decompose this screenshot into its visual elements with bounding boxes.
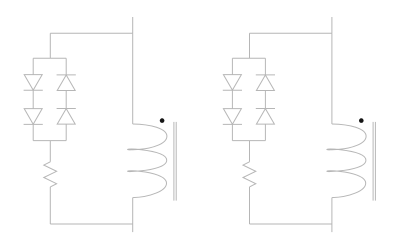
wire: right branch lower lead [65,124,67,141]
wire: diode network top rail [232,57,265,59]
diode D5 (cathode down) [223,75,242,91]
wire: bottom horizontal [50,223,132,225]
wire: coil bottom to lower terminal stub [132,198,134,233]
polarity dot (phasing dot) [359,118,364,123]
transformer core lines [373,122,375,201]
wire: right branch middle lead [264,91,266,109]
transformer core lines [174,122,176,201]
wire: right branch lower lead [264,124,266,141]
wire: right branch upper lead [264,58,266,75]
diode D4 (cathode up) [57,109,76,125]
wire: coil bottom to lower terminal stub [331,198,333,233]
wire: left vertical drop [49,33,51,58]
wire: left vertical drop [249,33,251,58]
wire: resistor to bottom rail [249,187,251,224]
wire: bottom horizontal [250,223,332,225]
wire: diode network top rail [33,57,66,59]
wire: right branch upper lead [65,58,67,75]
diode D3 (cathode up) [57,75,76,91]
wire: left branch upper lead [32,58,34,74]
wire: right branch middle lead [65,91,67,109]
diode D8 (cathode up) [256,109,275,125]
circuit 1 (left) [24,17,177,232]
wire: left branch middle lead [231,90,233,108]
diode D7 (cathode up) [256,75,275,91]
wire: center tap down to resistor [49,141,51,162]
wire: bus from top junction down to coil [132,33,134,124]
diode D2 (cathode down) [24,109,43,125]
resistor R2 [243,162,256,187]
wire: top horizontal [250,32,332,34]
inductor L2 (transformer winding) [327,124,366,198]
wire: left branch middle lead [32,90,34,108]
wire: left branch lower lead [32,124,34,140]
wire: bus from top junction down to coil [331,33,333,124]
polarity dot (phasing dot) [160,118,165,123]
resistor R1 [44,162,57,187]
wire: left branch upper lead [231,58,233,74]
wire: diode network bottom rail [33,140,66,142]
circuit 2 (right) [223,17,376,232]
wire: left branch lower lead [231,124,233,140]
wire: resistor to bottom rail [49,187,51,224]
wire: diode network bottom rail [232,140,265,142]
wire: top terminal stub [132,17,134,33]
inductor L1 (transformer winding) [128,124,167,198]
wire: top horizontal [50,32,132,34]
wire: center tap down to resistor [249,141,251,162]
diode D6 (cathode down) [223,109,242,125]
wire: top terminal stub [331,17,333,33]
diode D1 (cathode down) [24,75,43,91]
